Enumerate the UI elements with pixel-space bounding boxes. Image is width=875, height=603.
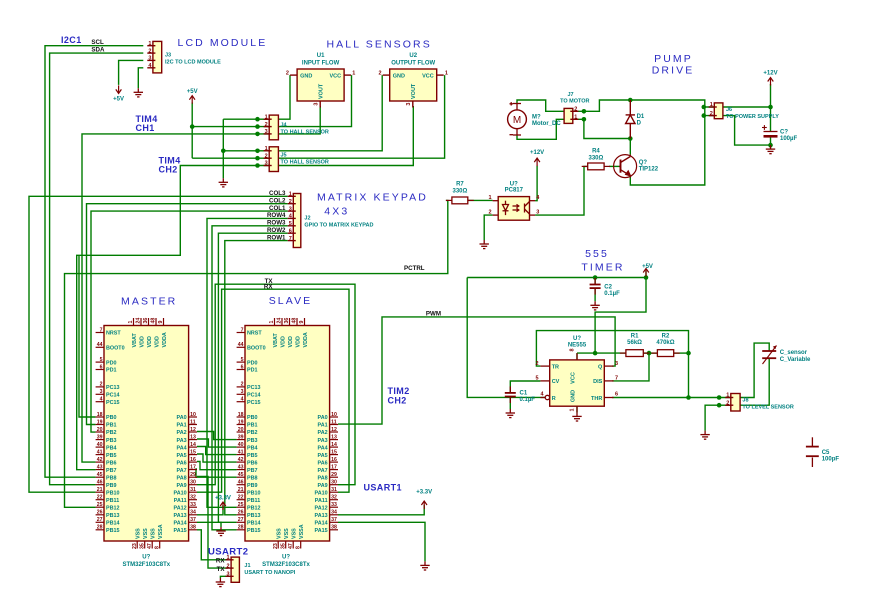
svg-text:VCC: VCC	[329, 73, 341, 79]
svg-text:C1: C1	[520, 390, 528, 396]
junction C2 top	[593, 275, 598, 280]
svg-text:15: 15	[190, 449, 196, 455]
svg-text:STM32F103C8Tx: STM32F103C8Tx	[262, 562, 310, 568]
svg-text:3: 3	[314, 103, 320, 106]
junction R1-R2 node	[647, 351, 652, 356]
junction J7 pin1	[582, 117, 587, 122]
svg-text:CH1: CH1	[136, 123, 155, 133]
junction GND at J5 pin1	[221, 149, 226, 154]
svg-text:VSS: VSS	[151, 528, 157, 539]
svg-text:330Ω: 330Ω	[452, 188, 467, 194]
svg-text:12: 12	[190, 427, 196, 433]
svg-text:45: 45	[97, 472, 103, 478]
svg-text:40: 40	[238, 442, 244, 448]
svg-text:CH2: CH2	[159, 165, 178, 175]
svg-text:25: 25	[97, 502, 103, 508]
svg-text:3: 3	[406, 103, 412, 106]
ground at 555 GND pin	[572, 412, 581, 421]
svg-text:J4: J4	[281, 123, 288, 129]
svg-text:VCC: VCC	[571, 372, 577, 384]
svg-text:PA13: PA13	[174, 513, 187, 519]
transistor Q? TIP122	[614, 155, 659, 178]
wire MASTER PA13 to +3.3V	[197, 505, 223, 515]
svg-text:1: 1	[352, 70, 355, 76]
svg-text:PA7: PA7	[318, 468, 328, 474]
svg-text:6: 6	[100, 364, 103, 370]
wire C1 bottom stem to ground	[509, 397, 511, 409]
svg-text:40: 40	[97, 442, 103, 448]
junction J8 pin2	[717, 403, 722, 408]
svg-text:1: 1	[574, 115, 577, 121]
svg-text:32: 32	[331, 495, 337, 501]
svg-text:PA3: PA3	[177, 438, 187, 444]
svg-text:+5V: +5V	[187, 89, 198, 95]
svg-text:PA9: PA9	[177, 483, 187, 489]
connector J3 I2C to LCD module	[147, 41, 221, 73]
svg-text:VDD: VDD	[288, 336, 294, 347]
svg-text:COL2: COL2	[269, 197, 286, 204]
wire 555 VCC stub wire	[576, 353, 578, 360]
svg-text:5: 5	[241, 357, 244, 363]
wire +12V to C7 top	[770, 84, 772, 131]
wire R2 to THR node	[674, 352, 689, 354]
svg-text:2: 2	[535, 361, 538, 367]
wire MASTER PA15 to J1 pin1 RX	[197, 530, 228, 560]
microcontroller U? STM32F103C8Tx master	[96, 318, 197, 568]
svg-text:PB9: PB9	[247, 483, 258, 489]
junction J6 pin2	[702, 113, 707, 118]
svg-text:31: 31	[190, 487, 196, 493]
svg-text:VBAT: VBAT	[132, 333, 138, 348]
svg-text:VDDA: VDDA	[303, 332, 309, 347]
svg-text:ROW3: ROW3	[267, 220, 286, 227]
wire Q7 emitter to J6 pin2	[630, 116, 705, 185]
svg-text:PC13: PC13	[247, 385, 261, 391]
wire THR row to level sensor J8 pin1	[612, 397, 719, 399]
wire +5V rail 555	[467, 277, 646, 279]
svg-text:1: 1	[148, 41, 151, 47]
wire ROW2 net (J2 pin6 to SLAVE PB14)	[218, 233, 287, 522]
svg-text:C2: C2	[604, 285, 612, 291]
variable capacitor C_sensor	[762, 346, 811, 365]
wire J3 pin4 to ground	[138, 68, 143, 89]
svg-text:VCC: VCC	[422, 73, 434, 79]
wire SCL net (J3 pin1 to MASTER PB8)	[45, 46, 143, 478]
svg-text:48: 48	[292, 318, 298, 324]
junction J4 pin2 wire	[255, 124, 260, 129]
svg-text:1: 1	[570, 408, 576, 411]
label TIM4 CH1 line2	[136, 123, 155, 133]
svg-text:PA2: PA2	[177, 430, 187, 436]
svg-text:1: 1	[289, 192, 292, 198]
svg-text:6: 6	[241, 364, 244, 370]
svg-text:45: 45	[238, 472, 244, 478]
svg-text:VBAT: VBAT	[273, 333, 279, 348]
svg-text:13: 13	[190, 434, 196, 440]
resistor R2 470k	[651, 334, 679, 357]
svg-text:26: 26	[238, 510, 244, 516]
svg-text:PA3: PA3	[318, 438, 328, 444]
svg-text:1: 1	[710, 102, 713, 108]
svg-text:41: 41	[238, 449, 244, 455]
svg-text:48: 48	[151, 318, 157, 324]
wire J7 pin1 to D1 and Q7 collector	[584, 119, 630, 138]
junction J6 pin1	[702, 105, 707, 110]
power +12V at supply connector	[763, 70, 777, 85]
hall sensor U2 output flow	[378, 53, 448, 108]
svg-text:7: 7	[615, 376, 618, 382]
svg-text:Motor_DC: Motor_DC	[532, 121, 561, 127]
ground between MCUs	[216, 527, 225, 536]
svg-text:16: 16	[190, 457, 196, 463]
svg-text:2: 2	[488, 209, 491, 215]
label J8 to level sensor	[742, 397, 793, 410]
svg-text:20: 20	[238, 427, 244, 433]
svg-text:22: 22	[238, 495, 244, 501]
svg-text:C_sensor: C_sensor	[780, 350, 808, 356]
wire U1 GND to J4 pin1 and GND rail	[223, 75, 290, 119]
svg-text:8: 8	[154, 546, 160, 549]
svg-text:PC14: PC14	[106, 393, 120, 399]
hall sensor U1 input flow	[286, 53, 356, 108]
wire COL3 net (J2 pin1 to MASTER PB10)	[29, 196, 288, 492]
connector J5 to hall sensor	[264, 146, 329, 172]
svg-text:17: 17	[331, 464, 337, 470]
wire COL2 net (J2 pin2 to MASTER PB1)	[87, 204, 288, 425]
svg-text:PC817: PC817	[505, 187, 524, 193]
net label ROW4	[267, 212, 286, 219]
svg-text:30: 30	[331, 480, 337, 486]
svg-text:29: 29	[331, 472, 337, 478]
svg-text:13: 13	[331, 434, 337, 440]
svg-text:PC13: PC13	[106, 385, 120, 391]
svg-text:PB15: PB15	[106, 528, 120, 534]
wire SDA net (J3 pin2 to MASTER PB9)	[50, 53, 144, 485]
svg-text:VDD: VDD	[147, 336, 153, 347]
wire TIM4_CH1 net (U1 VOUT / J4 pin3 to MASTER PB6)	[82, 106, 320, 462]
svg-text:PB11: PB11	[247, 498, 260, 504]
svg-text:42: 42	[238, 457, 244, 463]
svg-text:PB5: PB5	[106, 453, 117, 459]
svg-text:VDD: VDD	[295, 336, 301, 347]
svg-text:SDA: SDA	[91, 47, 105, 54]
net label RX	[264, 283, 273, 290]
power +5V at J3	[113, 85, 124, 102]
svg-text:4: 4	[100, 397, 103, 403]
svg-text:0.1µF: 0.1µF	[520, 397, 536, 403]
svg-text:I2C1: I2C1	[61, 35, 82, 45]
wire motor minus to J7 pin1	[517, 119, 584, 139]
svg-text:PA10: PA10	[315, 490, 328, 496]
svg-text:USART2: USART2	[208, 547, 248, 558]
power +3.3V between MCUs	[215, 496, 231, 511]
svg-text:2: 2	[289, 199, 292, 205]
wire MASTER PA5 to SLAVE PB6	[197, 454, 237, 462]
svg-text:J1: J1	[0, 0, 6, 2]
svg-text:23: 23	[273, 543, 279, 549]
svg-text:11: 11	[331, 419, 337, 425]
wire RX net (MASTER PA10 to SLAVE PA10)	[197, 289, 349, 492]
connector J7 to motor	[0, 0, 578, 123]
svg-text:14: 14	[190, 442, 196, 448]
junction D1 anode node	[628, 136, 633, 141]
svg-text:J8: J8	[742, 397, 748, 403]
svg-text:RX: RX	[264, 283, 273, 290]
svg-text:TO HALL SENSOR: TO HALL SENSOR	[281, 130, 329, 136]
svg-text:NE555: NE555	[568, 343, 587, 349]
svg-text:U?: U?	[573, 336, 581, 342]
svg-text:36: 36	[284, 318, 290, 324]
svg-text:24: 24	[136, 318, 142, 324]
svg-text:PC14: PC14	[247, 393, 261, 399]
svg-text:PA4: PA4	[318, 445, 328, 451]
svg-text:PA8: PA8	[177, 475, 187, 481]
svg-text:PA6: PA6	[318, 460, 328, 466]
svg-text:ROW2: ROW2	[267, 227, 286, 234]
svg-text:PA11: PA11	[315, 498, 328, 504]
svg-text:38: 38	[331, 525, 337, 531]
svg-text:37: 37	[190, 517, 196, 523]
svg-text:PB1: PB1	[247, 423, 258, 429]
svg-text:I2C TO LCD MODULE: I2C TO LCD MODULE	[165, 60, 221, 66]
svg-text:COL3: COL3	[269, 190, 286, 197]
wire U1 VCC to J4 pin2 and +5V rail	[192, 75, 351, 127]
wire TX net (MASTER PA9 to SLAVE PA9)	[197, 284, 355, 485]
label I2C1	[61, 35, 82, 45]
svg-text:J2: J2	[304, 215, 310, 221]
svg-text:1: 1	[265, 114, 268, 120]
svg-text:1: 1	[726, 393, 729, 399]
svg-text:D: D	[637, 121, 642, 127]
svg-text:SLAVE: SLAVE	[269, 295, 313, 307]
title MASTER	[121, 296, 177, 308]
svg-text:8: 8	[570, 348, 576, 351]
svg-text:+5V: +5V	[642, 264, 653, 270]
svg-text:U?: U?	[510, 181, 518, 187]
svg-text:21: 21	[97, 487, 103, 493]
label J1 usart to nanopi	[244, 563, 295, 576]
svg-text:PB7: PB7	[247, 468, 258, 474]
svg-text:18: 18	[238, 412, 244, 418]
svg-text:6: 6	[289, 228, 292, 234]
svg-text:PB14: PB14	[106, 521, 120, 527]
svg-text:41: 41	[97, 449, 103, 455]
label TIM2 CH2 line2	[388, 396, 407, 406]
svg-text:VSSA: VSSA	[158, 524, 164, 539]
wire PWM net (SLAVE PA1 to 555 output Q)	[338, 317, 615, 424]
wire +5V to branch	[595, 271, 646, 353]
wire C2 top stem	[594, 278, 596, 285]
wire ROW1 net (J2 pin7 to SLAVE PB13)	[225, 241, 288, 515]
svg-text:16: 16	[331, 457, 337, 463]
svg-text:THR: THR	[591, 396, 602, 402]
title PUMP DRIVE line1	[654, 53, 693, 65]
svg-text:PA10: PA10	[174, 490, 187, 496]
svg-text:Q: Q	[598, 364, 603, 370]
svg-text:PB3: PB3	[106, 438, 117, 444]
title TIMER	[581, 262, 624, 274]
svg-text:19: 19	[238, 419, 244, 425]
svg-text:VSS: VSS	[277, 528, 283, 539]
wire ROW4 net (J2 pin4 to SLAVE PB12)	[207, 218, 288, 507]
svg-text:RX: RX	[216, 558, 225, 565]
svg-text:32: 32	[190, 495, 196, 501]
net label COL2	[269, 197, 286, 204]
svg-text:PB13: PB13	[247, 513, 261, 519]
svg-text:PB0: PB0	[106, 415, 117, 421]
svg-text:33: 33	[331, 502, 337, 508]
title 4X3	[324, 205, 349, 217]
svg-text:PD1: PD1	[106, 368, 117, 374]
svg-text:30: 30	[190, 480, 196, 486]
svg-text:INPUT FLOW: INPUT FLOW	[302, 60, 340, 66]
svg-text:330Ω: 330Ω	[588, 155, 603, 161]
svg-text:CV: CV	[552, 379, 560, 385]
svg-text:2: 2	[710, 111, 713, 117]
svg-text:+5V: +5V	[113, 96, 124, 102]
wire SLAVE PA14 to ground	[338, 522, 425, 561]
svg-text:47: 47	[288, 543, 294, 549]
net label SCL	[91, 39, 104, 46]
svg-text:PB15: PB15	[247, 528, 261, 534]
svg-text:24: 24	[277, 318, 283, 324]
svg-text:DIS: DIS	[593, 379, 603, 385]
svg-text:TX: TX	[217, 566, 226, 573]
svg-text:10: 10	[190, 412, 196, 418]
junction J5 pin2 wire	[255, 156, 260, 161]
net label ROW1	[267, 234, 286, 241]
svg-text:15: 15	[331, 449, 337, 455]
svg-text:100µF: 100µF	[780, 136, 797, 142]
title SLAVE	[269, 295, 313, 307]
svg-text:PB13: PB13	[106, 513, 120, 519]
svg-text:VDDA: VDDA	[162, 332, 168, 347]
wire branch to MASTER PB0	[79, 255, 96, 417]
svg-text:STM32F103C8Tx: STM32F103C8Tx	[122, 562, 170, 568]
ground at J1	[216, 578, 225, 587]
svg-text:+3.3V: +3.3V	[215, 496, 231, 502]
wire C7 bottom to ground	[770, 138, 772, 149]
connector J6 to power supply	[0, 0, 723, 119]
svg-text:PA0: PA0	[177, 415, 187, 421]
svg-text:3: 3	[241, 389, 244, 395]
title PUMP DRIVE line2	[652, 65, 695, 77]
wire GND rail hall connectors	[222, 119, 224, 178]
svg-text:555: 555	[585, 248, 609, 260]
svg-text:PB12: PB12	[106, 505, 120, 511]
capacitor C1 0.1uF	[505, 386, 535, 403]
svg-text:DRIVE: DRIVE	[652, 65, 695, 77]
svg-text:4X3: 4X3	[324, 205, 349, 217]
svg-text:NRST: NRST	[247, 331, 262, 337]
label TIM4 CH2	[159, 156, 181, 166]
svg-text:20: 20	[97, 427, 103, 433]
svg-text:3: 3	[227, 572, 230, 578]
svg-text:22: 22	[97, 495, 103, 501]
junction +12V node	[768, 105, 773, 110]
wire U2 VCC to J5 pin2	[192, 75, 444, 158]
svg-text:7: 7	[241, 327, 244, 333]
svg-text:1: 1	[445, 70, 448, 76]
junction R2 right	[686, 351, 691, 356]
svg-text:VSS: VSS	[292, 528, 298, 539]
junction VCC/+5V branch	[593, 351, 598, 356]
svg-text:TO LEVEL SENSOR: TO LEVEL SENSOR	[742, 405, 793, 411]
svg-text:R1: R1	[631, 334, 639, 340]
wire +5V rail to hall connectors	[191, 103, 193, 159]
svg-text:470kΩ: 470kΩ	[656, 340, 674, 346]
wire motor plus to J7 pin2	[517, 100, 705, 116]
wire MASTER PA8 to J1 pin2 TX	[197, 477, 228, 569]
svg-text:2: 2	[265, 153, 268, 159]
svg-text:PB0: PB0	[247, 415, 258, 421]
svg-text:VDD: VDD	[139, 336, 145, 347]
junction J5 pin3 wire	[255, 163, 260, 168]
svg-text:PA13: PA13	[315, 513, 328, 519]
svg-text:NRST: NRST	[106, 331, 121, 337]
wire R4 to Q7 base	[609, 165, 619, 167]
svg-text:7: 7	[100, 327, 103, 333]
net label PWM	[426, 310, 441, 317]
svg-text:LCD MODULE: LCD MODULE	[178, 37, 268, 49]
svg-text:CH2: CH2	[388, 396, 407, 406]
svg-text:SCL: SCL	[91, 39, 104, 46]
svg-text:HALL SENSORS: HALL SENSORS	[327, 39, 432, 51]
svg-text:PB11: PB11	[106, 498, 119, 504]
wire TIM4_CH2 net (U2 VOUT / J5 pin3 to MASTER PB7)	[77, 106, 414, 470]
svg-text:PB5: PB5	[247, 453, 258, 459]
svg-text:56kΩ: 56kΩ	[627, 340, 642, 346]
wire C2 bottom to ground	[594, 288, 596, 301]
svg-text:PA1: PA1	[318, 423, 328, 429]
svg-text:9: 9	[158, 321, 164, 324]
net label ROW2	[267, 227, 286, 234]
svg-text:39: 39	[97, 434, 103, 440]
svg-text:TIM2: TIM2	[388, 386, 410, 396]
ground at J3	[134, 88, 143, 97]
ground hall sensors	[219, 178, 228, 187]
svg-text:28: 28	[238, 525, 244, 531]
svg-text:2: 2	[148, 48, 151, 54]
wire MASTER PA2 to SLAVE PB3	[197, 432, 237, 440]
svg-text:C5: C5	[822, 450, 830, 456]
svg-text:3: 3	[289, 206, 292, 212]
svg-text:USART1: USART1	[364, 483, 402, 493]
net label PCTRL	[404, 265, 425, 272]
svg-text:34: 34	[190, 510, 196, 516]
svg-text:PB6: PB6	[106, 460, 117, 466]
svg-text:2: 2	[227, 563, 230, 569]
svg-text:PA12: PA12	[174, 505, 187, 511]
svg-text:11: 11	[190, 419, 196, 425]
svg-text:PB14: PB14	[247, 521, 261, 527]
wire MASTER PA4 to SLAVE PB5	[197, 447, 237, 455]
junction J7 pin2	[582, 109, 587, 114]
ground at PC817 pin2	[480, 240, 489, 249]
net label COL3	[269, 190, 286, 197]
capacitor C? 100uF	[762, 125, 797, 142]
svg-text:MATRIX KEYPAD: MATRIX KEYPAD	[317, 192, 428, 204]
wire 555 GND pin to ground	[576, 406, 578, 412]
svg-text:PB2: PB2	[106, 430, 117, 436]
optocoupler U? PC817	[488, 181, 540, 220]
svg-text:J3: J3	[165, 53, 171, 59]
net label SDA	[91, 47, 105, 54]
svg-text:M: M	[513, 115, 521, 126]
net label TX at J1	[217, 566, 226, 573]
ground at C7	[766, 145, 775, 154]
net label RX at J1	[216, 558, 225, 565]
